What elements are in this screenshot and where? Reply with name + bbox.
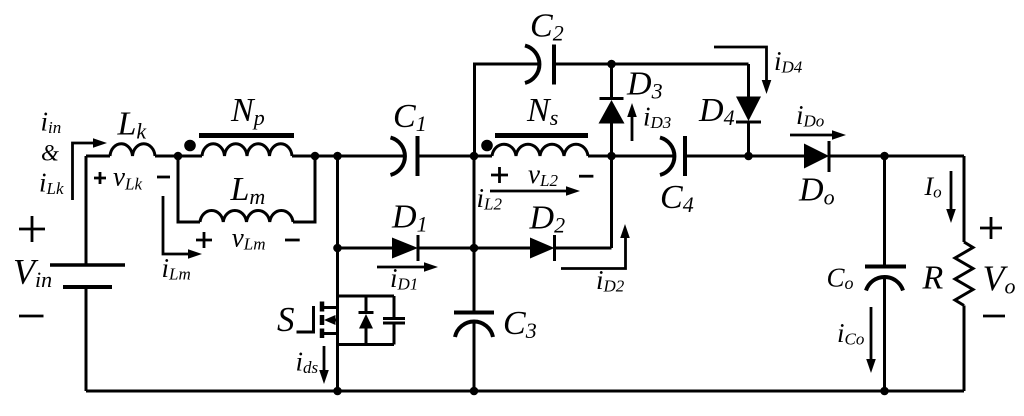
svg-text:&: & [41, 141, 59, 166]
svg-text:S: S [277, 300, 295, 339]
svg-text:R: R [922, 260, 944, 297]
